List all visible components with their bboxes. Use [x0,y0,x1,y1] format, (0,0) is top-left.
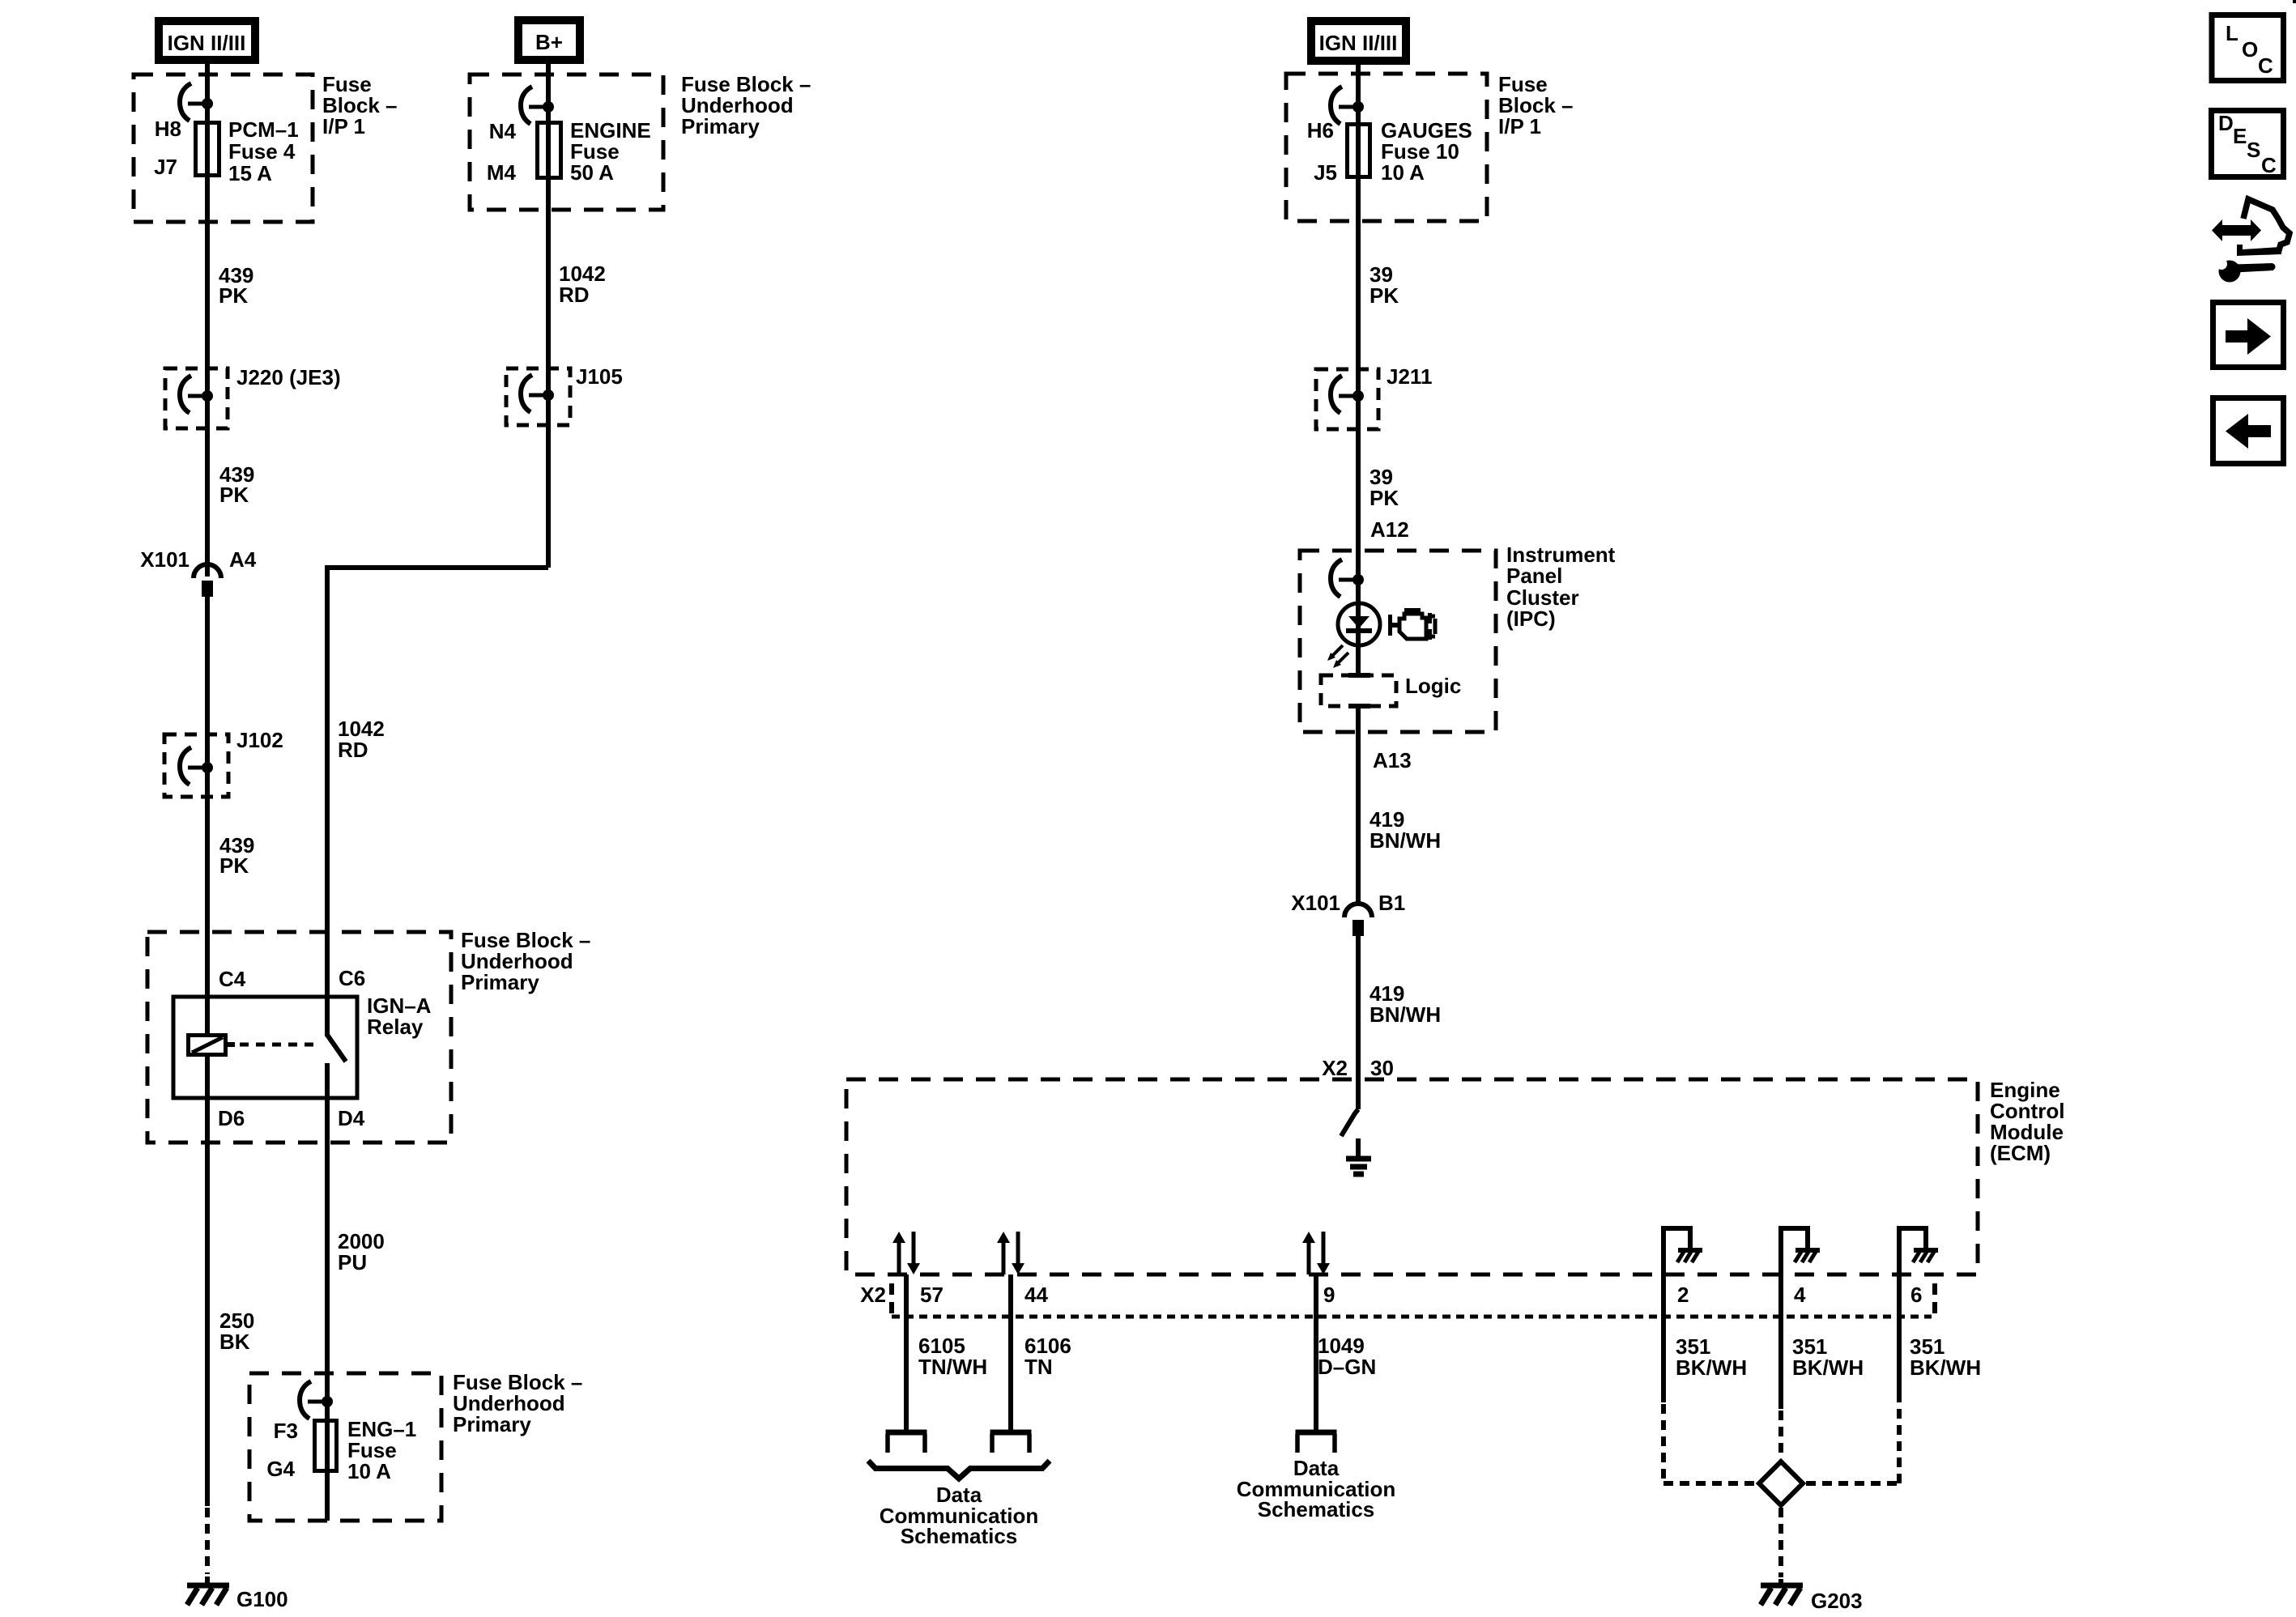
fuse block underhood primary dashed box (relay) [147,932,451,1143]
svg-text:M4: M4 [487,160,517,185]
label J220 (JE3) [236,365,341,389]
wire label 419 BN/WH (2) [1370,981,1441,1027]
svg-text:C: C [2261,153,2277,177]
svg-text:X101: X101 [140,547,190,572]
svg-text:2: 2 [1677,1283,1689,1307]
icon box left arrow [2213,398,2284,464]
label Instrument Panel Cluster (IPC) [1506,543,1616,631]
svg-text:J105: J105 [576,364,623,389]
svg-text:B+: B+ [535,30,563,54]
label Data Communication Schematics (right) [1237,1456,1395,1521]
wire 419 BN/WH to ECM [1356,936,1361,1109]
fuse block I/P 1 dashed box (left) [134,74,313,222]
svg-text:15 A: 15 A [228,161,272,185]
svg-text:Logic: Logic [1405,674,1461,698]
crossbar dashes on logic box [1348,675,1370,706]
in-line connector X101 B1 [1344,904,1372,936]
pin A13 [1373,748,1412,772]
relay control dashed link [228,1042,321,1047]
pin 4 [1794,1283,1806,1307]
svg-text:Fuse 4: Fuse 4 [228,139,296,164]
svg-text:4: 4 [1794,1283,1806,1307]
label X101 [140,547,190,572]
svg-text:Primary: Primary [453,1412,531,1436]
pin J7 [154,155,177,179]
pin D6 [218,1106,245,1130]
svg-text:N4: N4 [489,119,517,143]
ECM internal switch blade [1341,1109,1358,1136]
pin 57 [920,1283,944,1307]
pin H8 [155,117,181,141]
bidirectional arrows pin 9 [1302,1232,1330,1274]
splice J105 dashed box [506,368,570,425]
pin D4 [338,1106,365,1130]
wire 250 BK relay D6 to G100 [205,1057,210,1506]
svg-text:H8: H8 [155,117,181,141]
power label box IGN II/III (left) [159,21,255,60]
dashed wire diamond to G203 [1778,1508,1783,1577]
indicator lamp (MIL) [1338,580,1380,675]
in-line connector X101 A4 [194,564,221,597]
label Fuse Block - Underhood Primary (ENG-1) [453,1370,582,1436]
svg-text:G203: G203 [1811,1589,1863,1613]
ECM internal signal ground [1346,1138,1371,1174]
fuse PCM-1 Fuse 4 15 A [196,123,219,178]
engine control module dashed box [846,1079,1978,1274]
svg-text:Primary: Primary [681,114,760,138]
pin 6 [1910,1283,1922,1307]
wire label 351 BK/WH (4) [1792,1334,1864,1380]
svg-text:RD: RD [338,738,368,762]
svg-text:A4: A4 [229,547,257,572]
pin 30 [1370,1056,1394,1080]
svg-text:A13: A13 [1373,748,1412,772]
pin C6 [339,966,365,990]
label PCM-1 Fuse 4 15 A [228,117,299,185]
label Fuse Block - Underhood Primary (B+) [681,72,811,138]
svg-text:Panel: Panel [1506,564,1562,588]
off-page terminal pin 57 [886,1432,927,1453]
wire 439 PK fuse to J220 [205,177,210,577]
label X2 (top) [1322,1056,1348,1080]
relay IGN-A box [173,997,357,1098]
connector inside J105 [521,375,554,412]
wire label 351 BK/WH (6) [1910,1334,1981,1380]
svg-text:PCM–1: PCM–1 [228,117,299,142]
ground distribution dashed wires [1663,1404,1899,1483]
label J102 [236,728,283,752]
label G100 [236,1587,288,1611]
svg-text:J7: J7 [154,155,177,179]
svg-text:Primary: Primary [461,970,539,994]
label Fuse Block - Underhood Primary (relay) [461,928,590,994]
wire 6106 TN [1008,1274,1013,1432]
svg-text:30: 30 [1370,1056,1394,1080]
svg-text:Schematics: Schematics [1258,1497,1375,1521]
svg-text:BK/WH: BK/WH [1676,1355,1747,1380]
svg-text:Relay: Relay [367,1015,424,1039]
svg-text:O: O [2242,37,2258,62]
svg-text:BN/WH: BN/WH [1370,1002,1441,1027]
pin G4 [266,1457,295,1481]
wire 6105 TN/WH [904,1274,909,1432]
label J105 [576,364,623,389]
svg-text:PK: PK [219,283,248,308]
label GAUGES Fuse 10 10 A [1381,118,1472,185]
svg-text:B1: B1 [1378,891,1405,915]
pin F3 [274,1419,298,1443]
wire 439 PK below X101 to J102 [205,597,210,734]
svg-text:TN: TN [1024,1355,1053,1379]
wire 39 PK from IGN II/III to GAUGES fuse [1356,61,1361,125]
splice J220 dashed box [165,368,228,428]
icon box LOC [2212,15,2284,81]
bidirectional arrows pin 44 [997,1232,1024,1274]
svg-text:X101: X101 [1291,891,1340,915]
off-page terminal pin 44 [990,1432,1032,1453]
svg-text:RD: RD [559,283,590,307]
relay lower contact wire [325,1063,330,1143]
label Fuse Block - I/P 1 (middle) [1498,72,1574,138]
fuse block I/P 1 dashed box (middle) [1286,74,1487,221]
relay coil [189,1036,226,1055]
wire 2000 PU relay D4 to ENG-1 [325,1143,330,1419]
svg-text:BN/WH: BN/WH [1370,828,1441,853]
brace data communication [868,1461,1050,1479]
relay switch blade [327,1035,346,1062]
icon box DESC [2212,111,2284,178]
svg-text:J5: J5 [1314,160,1337,185]
svg-text:IGN II/III: IGN II/III [168,31,246,55]
fuse block underhood primary dashed box (ENG-1) [249,1373,441,1521]
label Data Communication Schematics (left) [880,1483,1038,1548]
power label box IGN II/III (middle) [1311,21,1406,61]
label G203 [1811,1589,1863,1613]
svg-text:A12: A12 [1370,517,1409,542]
connector inside J102 [180,747,213,785]
fuse block underhood primary dashed box (B+) [470,74,663,210]
wire label 419 BN/WH (1) [1370,807,1441,853]
ground G203 [1761,1579,1803,1605]
power label box B+ [518,20,580,60]
wire label 439 PK (2) [219,462,254,507]
connector terminal at N4 [521,87,554,124]
svg-text:C4: C4 [219,967,246,991]
pin 44 [1024,1283,1048,1307]
pin C4 [219,967,246,991]
svg-text:10 A: 10 A [1381,160,1425,185]
pin N4 [489,119,517,143]
wire 1049 D-GN [1314,1274,1318,1432]
svg-text:J102: J102 [236,728,283,752]
svg-text:D6: D6 [218,1106,245,1130]
svg-text:J220 (JE3): J220 (JE3) [236,365,341,389]
label ENGINE Fuse 50 A [570,118,651,185]
label X2 (ECM bottom) [860,1283,886,1307]
ECM ground pin 6 [1899,1228,1938,1402]
wire label 351 BK/WH (2) [1676,1334,1747,1380]
label Fuse Block - I/P 1 (left) [322,72,398,138]
svg-text:D: D [2218,111,2234,135]
svg-text:S: S [2247,138,2260,162]
connector inside J220 [180,376,213,413]
svg-text:PU: PU [338,1250,367,1274]
svg-text:IGN II/III: IGN II/III [1319,31,1398,55]
wire 39 PK fuse to J211 [1356,179,1361,580]
diagnostic icon wrench [2216,258,2276,283]
svg-text:F3: F3 [274,1419,298,1443]
svg-text:BK/WH: BK/WH [1792,1355,1864,1380]
ECM ground pin 4 [1781,1228,1820,1409]
wire label 1042 RD (2) [338,717,385,762]
pin A12 [1370,517,1409,542]
svg-text:E: E [2233,124,2247,148]
svg-text:(IPC): (IPC) [1506,606,1556,631]
pin H6 [1307,118,1334,143]
connector terminal at F3 [300,1381,333,1419]
label ENG-1 Fuse 10 A [347,1417,416,1483]
wire 1042 RD jog left and down to relay C6 [327,568,548,1036]
svg-text:PK: PK [1370,486,1399,510]
wire label 39 PK (2) [1370,465,1399,510]
svg-text:44: 44 [1024,1283,1048,1307]
label X101 (B1) [1291,891,1340,915]
svg-text:BK/WH: BK/WH [1910,1355,1981,1380]
svg-text:D4: D4 [338,1106,365,1130]
wire label 6106 TN [1024,1334,1071,1379]
svg-text:X2: X2 [1322,1056,1348,1080]
svg-text:X2: X2 [860,1283,886,1307]
icon box right arrow [2213,303,2284,368]
label A4 [229,547,257,572]
connector terminal inside IPC [1331,560,1364,597]
pin 2 [1677,1283,1689,1307]
svg-text:(ECM): (ECM) [1990,1141,2051,1165]
wire label 1042 RD (1) [559,262,606,307]
label Logic [1405,674,1461,698]
wire logic to A13 [1356,706,1361,904]
svg-text:H6: H6 [1307,118,1334,143]
label IGN-A Relay [367,994,432,1039]
label B1 [1378,891,1405,915]
svg-text:L: L [2226,21,2238,45]
dashed wire to G100 [205,1508,210,1574]
svg-text:6: 6 [1910,1283,1922,1307]
svg-text:Schematics: Schematics [901,1524,1018,1548]
bidirectional arrows pin 57 [892,1232,920,1274]
svg-text:BK: BK [219,1330,250,1354]
ECM ground pin 2 [1663,1228,1702,1402]
wire label 439 PK (3) [219,833,254,878]
fuse ENG-1 Fuse 10 A [315,1419,337,1521]
svg-text:PK: PK [219,483,249,507]
wire label 2000 PU [338,1229,385,1274]
svg-text:I/P 1: I/P 1 [322,114,365,138]
svg-text:G100: G100 [236,1587,288,1611]
splice diamond [1759,1462,1803,1505]
X2 tick left [889,1283,894,1316]
fuse GAUGES Fuse 10 10 A [1348,125,1370,180]
connector terminal at H8 [180,83,213,121]
pin M4 [487,160,517,185]
connector terminal at H6 [1331,87,1364,124]
svg-text:9: 9 [1323,1283,1335,1307]
X2 connector dashed line [892,1315,1932,1319]
wire label 39 PK (1) [1370,262,1399,308]
svg-text:J211: J211 [1387,364,1432,389]
diagnostic icon pointer outline [2237,199,2290,256]
wire 439 PK from IGN II/III to PCM-1 fuse [205,60,210,123]
instrument panel cluster dashed box [1300,551,1496,732]
svg-text:C6: C6 [339,966,365,990]
wire 439 PK J102 to relay coil C4 [205,734,210,1033]
off-page terminal pin 9 [1296,1432,1337,1453]
pin J5 [1314,160,1337,185]
wire 1042 RD fuse to J105 [546,180,551,568]
connector inside J211 [1331,376,1364,413]
splice J211 dashed box [1316,369,1378,429]
logic dashed box [1321,675,1396,706]
svg-text:C: C [2258,53,2273,78]
svg-text:57: 57 [920,1283,944,1307]
svg-text:TN/WH: TN/WH [918,1355,987,1379]
pin 9 [1323,1283,1335,1307]
wire 1042 RD from B+ into fuse block [546,60,551,123]
svg-text:50 A: 50 A [570,160,614,185]
ground G100 [187,1577,229,1605]
lamp light arrows [1327,645,1348,668]
wire label 1049 D-GN [1318,1334,1376,1379]
page corner mark [2293,0,2296,3]
X2 tick right [1932,1283,1937,1316]
svg-text:D–GN: D–GN [1318,1355,1376,1379]
splice J102 dashed box [164,734,228,797]
svg-text:PK: PK [1370,283,1399,308]
diagnostic icon double arrow [2212,219,2261,241]
svg-text:I/P 1: I/P 1 [1498,114,1541,138]
wire label 6105 TN/WH [918,1334,987,1379]
check engine icon [1388,608,1435,640]
svg-text:PK: PK [219,853,249,878]
svg-text:G4: G4 [266,1457,295,1481]
wire label 439 PK (1) [219,263,253,308]
label J211 [1387,364,1432,389]
label Engine Control Module (ECM) [1990,1078,2064,1165]
wire label 250 BK [219,1308,254,1354]
svg-text:10 A: 10 A [347,1459,391,1483]
fuse ENGINE Fuse 50 A [538,123,561,181]
